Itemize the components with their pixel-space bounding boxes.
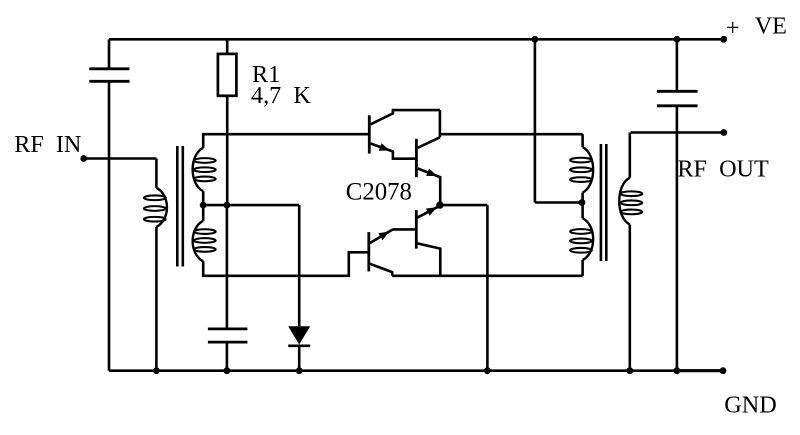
svg-text:RF IN: RF IN: [14, 131, 81, 158]
svg-text:VE: VE: [755, 13, 787, 40]
svg-text:C2078: C2078: [346, 179, 412, 206]
svg-text:GND: GND: [724, 392, 776, 419]
svg-text:+: +: [726, 14, 740, 41]
svg-text:RF OUT: RF OUT: [677, 156, 769, 183]
svg-text:4,7 K: 4,7 K: [251, 82, 311, 109]
